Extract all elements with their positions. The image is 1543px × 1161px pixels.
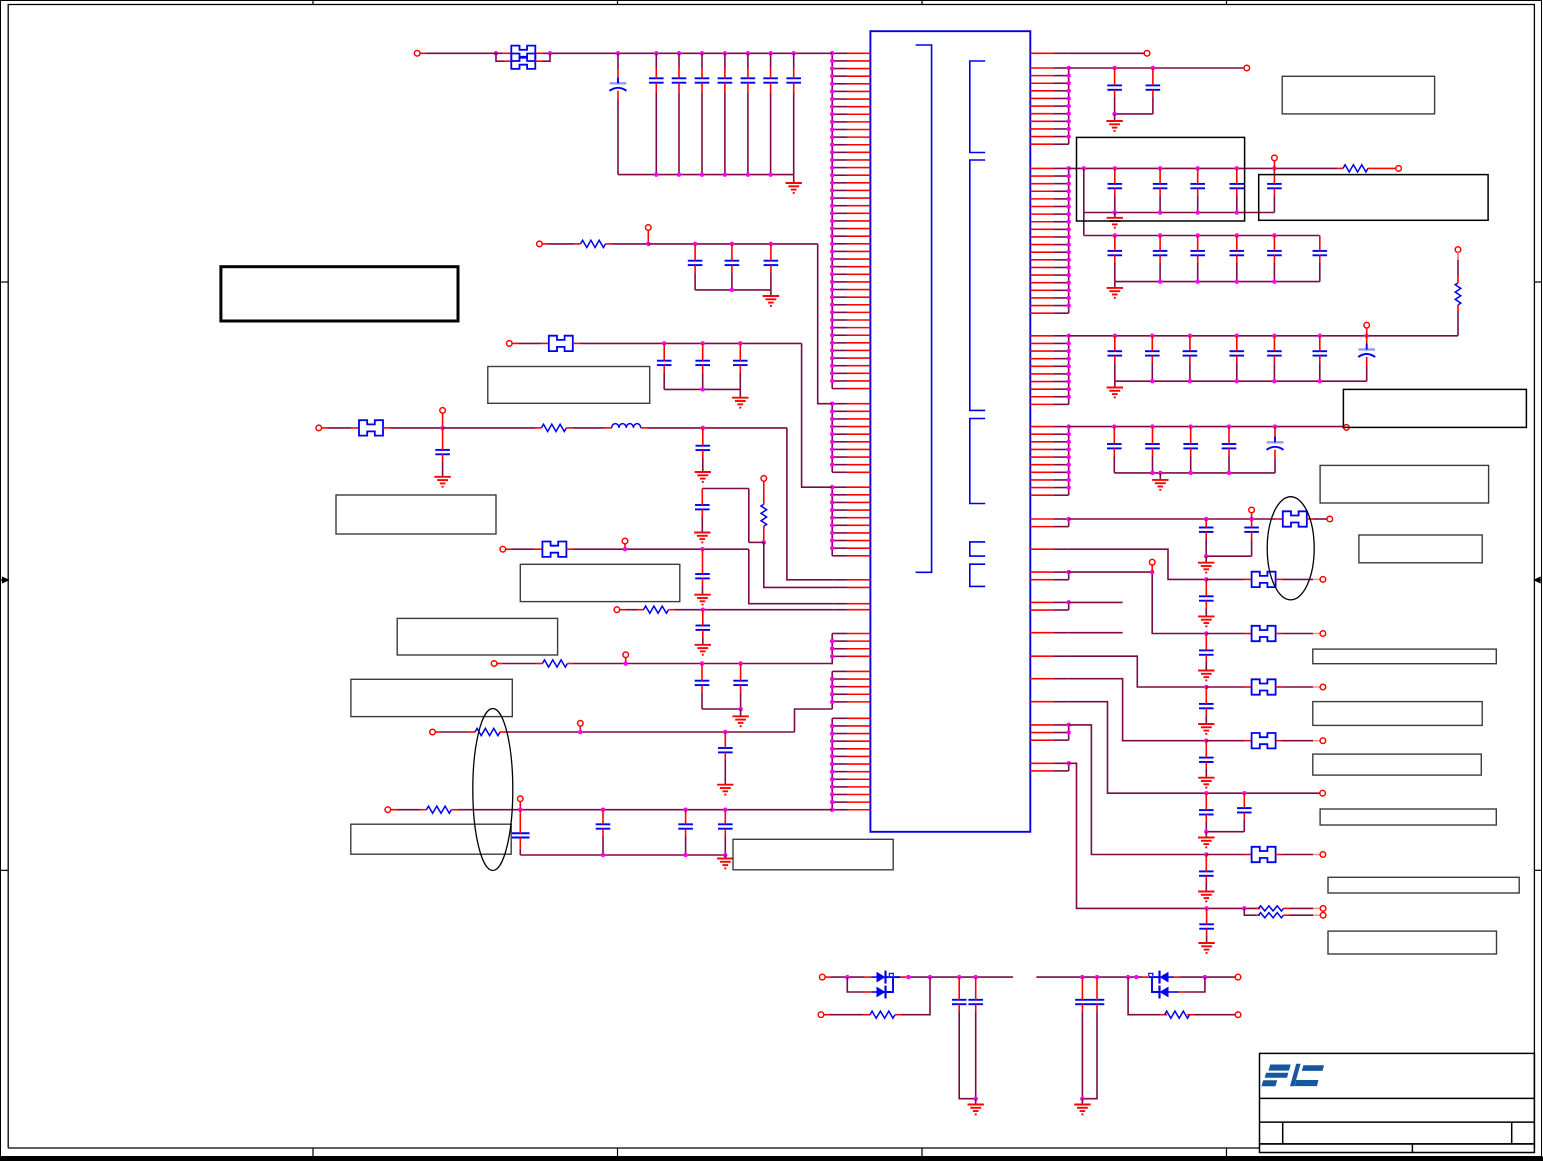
pin left A2 xyxy=(848,60,871,62)
pin left C5 xyxy=(848,517,871,519)
wire row243 c xyxy=(612,243,648,245)
capacitor C row809 685.6 xyxy=(678,824,693,828)
capacitor C row426 1114.3 xyxy=(1107,444,1122,448)
pin left F13 xyxy=(848,809,871,811)
junction left A43 xyxy=(830,371,835,376)
wire dioR cap1097 dn xyxy=(1096,1004,1098,1012)
capacitor C row168 1160.1 xyxy=(1153,184,1168,188)
junction row663 riser xyxy=(623,661,628,666)
pin left A19 xyxy=(848,189,871,191)
capacitor (electrolytic) CE row426 xyxy=(1267,436,1284,450)
wire C702 lead dn xyxy=(701,83,703,93)
junction row243 gnd bus xyxy=(730,288,735,293)
wire row335 cap1236.8 dn2 xyxy=(1236,363,1238,381)
pin right P31 xyxy=(1030,571,1053,573)
pin left A33 xyxy=(848,296,871,298)
ground row335 xyxy=(1107,388,1123,398)
capacitor C top 724.9 xyxy=(718,78,733,82)
pin right P12 xyxy=(1030,526,1053,528)
wire row343 cap702.7 up xyxy=(702,343,704,360)
junction left A19 xyxy=(830,188,835,193)
wire row687 a xyxy=(1206,686,1244,688)
capacitor C row335 1274.4 xyxy=(1267,351,1282,355)
wire row732 b xyxy=(441,731,468,733)
wire dioL c xyxy=(907,976,1014,978)
junction top gnd bus 656.3 xyxy=(654,172,659,177)
wire row235 cap1236.8 up xyxy=(1236,236,1238,251)
capacitor C row519 1251.6 xyxy=(1244,528,1259,532)
junction left A44 xyxy=(830,379,835,384)
wire row335 rstub2 xyxy=(1457,305,1459,311)
wire row687 out wire xyxy=(1282,686,1313,688)
junction top gnd bus 702 xyxy=(700,172,705,177)
wire row343 cap664.2 dn xyxy=(663,365,665,373)
terminal dioR rout xyxy=(1235,1012,1241,1018)
wire row343 bstub1 xyxy=(541,342,549,344)
wire row426 cap1190.7 dn2 xyxy=(1190,456,1192,473)
junction right P41 xyxy=(1066,600,1071,605)
wire row549 bstub2 xyxy=(566,548,573,550)
terminal row168 out xyxy=(1396,166,1402,172)
junction row235 gnd bus 1274.4 xyxy=(1272,279,1277,284)
resistor R row427 xyxy=(541,424,566,431)
wire row235 cap1114.8 up xyxy=(1114,236,1116,251)
capacitor C top 679 xyxy=(672,78,687,82)
ellipse marker left xyxy=(473,709,513,871)
pin right P42 xyxy=(1030,609,1053,611)
pin right R22 xyxy=(1030,175,1053,177)
wire row633 bstub2 xyxy=(1276,633,1282,635)
junction left B1 xyxy=(830,401,835,406)
wire row426 rail xyxy=(1069,426,1344,428)
junction row809 col 603 xyxy=(601,807,606,812)
pin left B7 xyxy=(848,448,871,450)
wire dioL dstub2 xyxy=(900,976,907,978)
capacitor C row426 1229 xyxy=(1222,444,1237,448)
ferrite bead row427 xyxy=(359,420,383,435)
wire row732 cap up xyxy=(724,732,726,748)
pin right P93 xyxy=(1030,739,1053,741)
junction dioR j2 xyxy=(1095,975,1100,980)
wire row519 gnd stem xyxy=(1205,556,1207,563)
wire C656.3 lead dn xyxy=(655,83,657,93)
junction row243 col 770.9 xyxy=(769,242,774,247)
terminal VCC top-left xyxy=(414,51,420,57)
wire row68 gnd bus xyxy=(1115,113,1153,115)
wire row168 cap1160.1 dn2 xyxy=(1159,196,1161,213)
pin right R110 xyxy=(1030,136,1053,138)
terminal row243 riser xyxy=(646,225,652,231)
capacitor C row663 702 xyxy=(695,681,710,685)
wire row633 cap dn2 xyxy=(1205,662,1207,671)
wire row235 cap1160.1 dn xyxy=(1159,255,1161,263)
wire row243 cap731.9 dn2 xyxy=(731,273,733,290)
pin left A20 xyxy=(848,197,871,199)
wire P5 dangling xyxy=(1069,632,1123,634)
wire row740 out lead xyxy=(1313,740,1320,742)
wire row809 gnd bus xyxy=(520,854,725,856)
junction row663 col 740.6 xyxy=(738,661,743,666)
wire row427 e xyxy=(573,427,604,429)
wire rblock h xyxy=(749,541,764,543)
pin right R11 xyxy=(1030,67,1053,69)
border tick top 1 xyxy=(312,1,314,5)
label box RB4 xyxy=(1343,389,1526,427)
wire row549 c xyxy=(573,548,749,550)
wire row732 c xyxy=(506,731,795,733)
pin right R37 xyxy=(1030,381,1053,383)
junction row335 col 1366.7 xyxy=(1364,334,1369,339)
wire row235 cap1319.8 up xyxy=(1319,236,1321,251)
IC U1 internal section bracket right 2 xyxy=(970,160,985,410)
junction row426 gnd bus 1190.7 xyxy=(1188,471,1193,476)
wire row549 bstub1 xyxy=(534,548,542,550)
wire row663 gnd stem xyxy=(740,709,742,716)
junction left A13 xyxy=(830,142,835,147)
ground row579 xyxy=(1198,616,1214,626)
junction row426 gnd bus 1229 xyxy=(1227,471,1232,476)
wire row908 cap dn xyxy=(1206,929,1208,936)
wire row579 cap up xyxy=(1205,579,1207,596)
junction left D2 xyxy=(830,639,835,644)
wire diode D3 in lead xyxy=(1149,976,1160,978)
junction row426 col 1114.3 xyxy=(1112,424,1117,429)
pin right R41 xyxy=(1030,426,1053,428)
pin right R16 xyxy=(1030,105,1053,107)
junction right R39 xyxy=(1066,395,1071,400)
junction left C2 xyxy=(830,493,835,498)
wire dioR dlead2 xyxy=(1169,976,1174,978)
junction left B5 xyxy=(830,432,835,437)
wire C793.7 lead dn2 xyxy=(793,93,795,175)
wire rblock cap dn xyxy=(701,509,703,517)
pin right R18 xyxy=(1030,120,1053,122)
wire rblock cap up xyxy=(701,489,703,506)
junction row235 gnd bus 1236.8 xyxy=(1235,279,1240,284)
capacitor C row809 725.3 xyxy=(718,824,733,828)
junction left A28 xyxy=(830,257,835,262)
capacitor C top 747.9 xyxy=(741,78,756,82)
wire row663 cap702 up xyxy=(701,664,703,681)
junction dual-bead in xyxy=(494,51,499,56)
wire C724.9 lead up2 xyxy=(724,68,726,78)
wire row68 cap1114.6 up xyxy=(1114,68,1116,85)
junction left F13 xyxy=(830,807,835,812)
junction left F9 xyxy=(830,777,835,782)
capacitor C top 702 xyxy=(695,78,710,82)
wire rblock stub2 xyxy=(763,526,765,542)
border tick bottom 3 xyxy=(921,1148,923,1157)
junction row426 gnd bus 1160.3 xyxy=(1158,471,1163,476)
junction row235 gnd bus 1197.7 xyxy=(1195,279,1200,284)
wire row427 capa dn xyxy=(442,454,444,462)
junction dioL j4 xyxy=(973,975,978,980)
junction row549 riser xyxy=(623,547,628,552)
terminal row809 riser xyxy=(518,796,524,802)
junction right P92 xyxy=(1066,730,1071,735)
pin left C1 xyxy=(848,486,871,488)
terminal row579 out xyxy=(1320,577,1326,583)
junction row426 col 1275 xyxy=(1273,424,1278,429)
wire dioL dlead1 xyxy=(872,976,877,978)
wire row235 cap1160.1 up xyxy=(1159,236,1161,251)
wire row426 cap1229 dn2 xyxy=(1228,456,1230,473)
FIC logo xyxy=(1262,1064,1325,1086)
wire groupE to row732 xyxy=(795,709,833,732)
wire row235 gnd stem xyxy=(1114,282,1116,288)
capacitor C row235 1319.8 xyxy=(1313,251,1328,255)
diode pair notch right xyxy=(1149,973,1153,976)
wire row426 ecap up xyxy=(1274,427,1276,437)
junction row243 col 731.9 xyxy=(730,242,735,247)
junction right R42 xyxy=(1066,432,1071,437)
label box L7 xyxy=(733,839,893,870)
pin left S4 xyxy=(848,609,871,611)
wire row243 cap770.9 dn xyxy=(770,265,772,273)
wire P3 riser stub xyxy=(1151,565,1153,572)
diode D1 xyxy=(877,971,886,984)
terminal row687 out xyxy=(1320,684,1326,690)
wire row740 out wire xyxy=(1282,740,1313,742)
wire row663 riser stub xyxy=(625,657,627,663)
pin right R28 xyxy=(1030,221,1053,223)
junction left A1 xyxy=(830,51,835,56)
wire row687 out lead xyxy=(1313,686,1320,688)
junction left A7 xyxy=(830,97,835,102)
wire row579 out wire xyxy=(1282,578,1313,580)
wire dioR cap1082.4 up xyxy=(1081,977,1083,1000)
pin left A15 xyxy=(848,159,871,161)
terminal row609 in xyxy=(614,607,620,613)
wire row854 bstub2 xyxy=(1276,854,1282,856)
wire row793 capa up xyxy=(1205,793,1207,810)
wire row168 cap1274.4 dn2 xyxy=(1273,196,1275,213)
wire top rail a xyxy=(420,52,426,54)
capacitor (electrolytic) CE1 xyxy=(610,77,627,91)
junction top rail col 656.3 xyxy=(654,51,659,56)
wire C747.9 lead up xyxy=(747,53,749,68)
ground top rail xyxy=(786,183,802,193)
wire row335 cap1236.8 dn xyxy=(1236,356,1238,363)
pin left F8 xyxy=(848,771,871,773)
pin right R13 xyxy=(1030,82,1053,84)
IC U1 internal section bracket right 4 xyxy=(970,542,985,556)
wire dioL r c xyxy=(901,977,930,1015)
pin left A41 xyxy=(848,357,871,359)
wire row908 rstub2 xyxy=(1284,907,1291,909)
wire row335 cap1319.8 dn xyxy=(1319,356,1321,363)
wire row426 cap1229 up xyxy=(1228,427,1230,444)
junction right R21 xyxy=(1066,166,1071,171)
junction left A22 xyxy=(830,211,835,216)
label box RB3 xyxy=(1259,175,1488,221)
wire row549 cap up xyxy=(702,549,704,574)
capacitor C row335 1114.8 xyxy=(1108,351,1123,355)
wire CE1 lead up xyxy=(617,53,619,69)
junction row426 col 1152.5 xyxy=(1150,424,1155,429)
terminal row343 in xyxy=(507,341,513,347)
wire row427 f xyxy=(647,427,787,429)
wire row427 b xyxy=(328,427,351,429)
pin right R215 xyxy=(1030,274,1053,276)
capacitor C row235 1114.8 xyxy=(1108,251,1123,255)
ground row732 xyxy=(717,785,733,795)
capacitor C row549 xyxy=(695,574,710,578)
pin right R34 xyxy=(1030,358,1053,360)
junction right R33 xyxy=(1066,349,1071,354)
wire row809 gnd stem xyxy=(724,855,726,859)
junction right R110 xyxy=(1066,134,1071,139)
junction top gnd bus 770.6 xyxy=(768,172,773,177)
wire row343 b xyxy=(519,342,541,344)
terminal row549 riser xyxy=(622,538,628,544)
wire row243 cap695.1 dn xyxy=(694,265,696,273)
junction left A8 xyxy=(830,104,835,109)
pin right R14 xyxy=(1030,90,1053,92)
junction row235 col 1160.1 xyxy=(1158,233,1163,238)
junction left F11 xyxy=(830,792,835,797)
wire dioL dstub1 xyxy=(864,976,872,978)
bus left group B xyxy=(831,404,833,473)
ferrite bead row633 xyxy=(1252,626,1276,641)
junction left F4 xyxy=(830,739,835,744)
junction left E4 xyxy=(830,692,835,697)
wire C770.6 lead up xyxy=(770,53,772,68)
capacitor C row732 xyxy=(718,748,733,752)
capacitor C row854 xyxy=(1199,871,1214,875)
pin right R32 xyxy=(1030,342,1053,344)
wire row427 capa dn2 xyxy=(442,462,444,477)
junction right R16 xyxy=(1066,104,1071,109)
junction row168 gnd bus 1197.7 xyxy=(1195,210,1200,215)
wire dioL capL dn2 xyxy=(959,1012,976,1099)
terminal row68 out xyxy=(1244,65,1250,71)
wire row687 cap dn2 xyxy=(1205,715,1207,724)
pin right R24 xyxy=(1030,190,1053,192)
junction right R12 xyxy=(1066,73,1071,78)
terminal dio L in xyxy=(820,974,826,980)
terminal row243 in xyxy=(537,241,543,247)
junction row235 col 1114.8 xyxy=(1113,233,1118,238)
junction left A9 xyxy=(830,112,835,117)
wire row68 cap1114.6 dn xyxy=(1114,90,1116,97)
wire CE1 lead dn2 xyxy=(617,100,619,175)
pin left F1 xyxy=(848,717,871,719)
wire dioL r a xyxy=(824,1014,830,1016)
bus right group P3 xyxy=(1068,572,1070,580)
wire row168 cap1114.8 up xyxy=(1114,168,1116,184)
junction left F6 xyxy=(830,754,835,759)
wire row427 c xyxy=(390,427,443,429)
junction row168 gnd bus 1236.8 xyxy=(1235,210,1240,215)
wire row519 cap1251.6 dn2 xyxy=(1251,539,1253,556)
junction row809 gnd bus end xyxy=(723,853,728,858)
resistor R row908b xyxy=(1259,913,1284,918)
wire top rail gnd bus xyxy=(618,174,794,176)
wire row908 out wire xyxy=(1290,907,1313,909)
wire C702 lead dn2 xyxy=(701,93,703,175)
wire row343 cap740.3 up xyxy=(739,343,741,360)
pin left A34 xyxy=(848,304,871,306)
junction right R212 xyxy=(1066,250,1071,255)
wire row235 cap1236.8 dn2 xyxy=(1236,263,1238,282)
junction left F11 xyxy=(830,792,835,797)
capacitor (electrolytic) CE row335 xyxy=(1358,344,1375,358)
bus right group R3 xyxy=(1068,336,1070,405)
junction right R210 xyxy=(1066,235,1071,240)
wire row609 rstub1 xyxy=(637,609,644,611)
junction right R219 xyxy=(1066,303,1071,308)
junction left F7 xyxy=(830,762,835,767)
capacitor C row235 1236.8 xyxy=(1230,251,1245,255)
wire row168 cap1236.8 dn2 xyxy=(1236,196,1238,213)
wire C747.9 lead dn2 xyxy=(747,93,749,175)
wire bead L1 stub xyxy=(503,52,511,54)
ground row168 xyxy=(1107,218,1123,228)
wire row343 cap702.7 dn xyxy=(702,365,704,373)
IC U1 internal section bracket right 1 xyxy=(970,61,985,153)
wire rblock h2 xyxy=(702,488,749,490)
wire row687 cap up xyxy=(1205,687,1207,704)
pin left B1 xyxy=(848,403,871,405)
wire row168 rstub2 xyxy=(1368,167,1374,169)
wire row335 cap1274.4 dn2 xyxy=(1273,363,1275,381)
wire row633 cap up xyxy=(1205,634,1207,651)
wire row809 cap725.3 up xyxy=(724,810,726,825)
wire row663 gnd bus xyxy=(702,708,741,710)
wire row168 out wire xyxy=(1374,167,1396,169)
junction row235 col 1197.7 xyxy=(1195,233,1200,238)
wire row427 capb up xyxy=(702,428,704,446)
pin left F12 xyxy=(848,801,871,803)
ground row793 xyxy=(1198,838,1214,848)
wire C702 lead up2 xyxy=(701,68,703,78)
junction row426 gnd bus 1152.5 xyxy=(1150,471,1155,476)
wire row549 b xyxy=(512,548,534,550)
junction left F3 xyxy=(830,731,835,736)
resistor R row609 xyxy=(644,606,669,613)
wire row343 cap740.3 dn2 xyxy=(739,373,741,389)
junction right R41 xyxy=(1066,424,1071,429)
junction row68 col 1152.9 xyxy=(1151,66,1156,71)
capacitor C top 793.7 xyxy=(786,78,801,82)
ground row809 xyxy=(717,859,733,869)
resistor R row243 xyxy=(581,240,606,247)
wire row908b out lead xyxy=(1313,914,1321,916)
wire row68 rail xyxy=(1069,67,1245,69)
pin left B2 xyxy=(848,410,871,412)
pin left A4 xyxy=(848,75,871,77)
ground row740 xyxy=(1198,778,1214,788)
label box RB1 xyxy=(1282,76,1434,114)
junction left C8 xyxy=(830,538,835,543)
junction right P91 xyxy=(1066,723,1071,728)
junction left A4 xyxy=(830,74,835,79)
wire row579 bstub2 xyxy=(1276,578,1282,580)
pin right R212 xyxy=(1030,251,1053,253)
wire row168 cap1236.8 dn xyxy=(1236,188,1238,196)
ground row235 xyxy=(1107,288,1123,298)
pin right R218 xyxy=(1030,297,1053,299)
wire row809 cap603 up xyxy=(602,810,604,825)
wire dioL branch dn xyxy=(847,977,864,992)
bus left group A xyxy=(831,53,833,388)
wire dioR dstub1 xyxy=(1142,976,1149,978)
wire P4 dangling xyxy=(1069,601,1123,603)
junction right R31 xyxy=(1066,334,1071,339)
wire row427 riser stub xyxy=(442,413,444,428)
junction row793 gnd bus xyxy=(1204,829,1209,834)
